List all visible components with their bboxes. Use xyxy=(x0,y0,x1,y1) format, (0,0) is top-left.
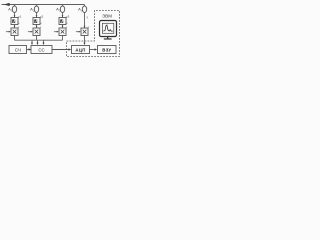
svg-text:у2: у2 xyxy=(40,14,44,18)
svg-text:г: г xyxy=(66,25,67,29)
svg-text:г: г xyxy=(18,25,19,29)
svg-text:СЧ: СЧ xyxy=(15,47,21,52)
svg-text:у1: у1 xyxy=(18,14,22,18)
svg-text:СС: СС xyxy=(38,47,44,52)
svg-text:у3: у3 xyxy=(66,14,70,18)
svg-text:АЦП: АЦП xyxy=(75,47,85,52)
svg-text:г: г xyxy=(40,25,41,29)
svg-text:г: г xyxy=(88,25,89,29)
svg-text:ЭВМ: ЭВМ xyxy=(102,13,112,18)
svg-text:ВЗУ: ВЗУ xyxy=(102,47,111,52)
